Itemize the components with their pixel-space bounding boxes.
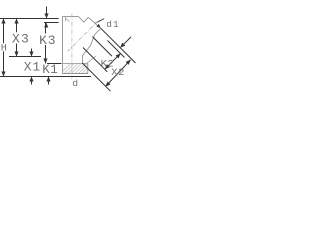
dimension line X2 <box>106 60 131 87</box>
svg-text:X3: X3 <box>12 31 30 46</box>
svg-text:K3: K3 <box>39 33 56 48</box>
main pipe centerline <box>71 14 73 79</box>
extension line C1 through branch root <box>83 48 107 72</box>
reference line L3 (X1/X3 plane) <box>9 56 41 58</box>
dimension line H <box>3 19 5 77</box>
svg-text:X2: X2 <box>111 67 125 79</box>
V notch between socket and branch <box>79 17 89 23</box>
dimension line X1 stubs <box>31 49 33 85</box>
dimension line K1 stub <box>48 77 50 85</box>
arrow X3 bottom <box>14 52 18 57</box>
section hatch of bottom block <box>58 62 104 76</box>
reference line L5 (bottom plane) <box>0 76 91 78</box>
pointer stub above L1 <box>46 7 48 15</box>
arrow H bottom <box>1 72 5 77</box>
branch root inner line <box>85 56 96 65</box>
arrow X2 outer <box>126 60 131 65</box>
extension line C2 through body edge <box>82 63 110 91</box>
extension of branch mouth plane <box>101 28 136 63</box>
extension of branch socket-end plane <box>92 37 112 57</box>
bottom block top edge <box>63 63 88 65</box>
arrow X3 top <box>14 19 18 24</box>
arrow d1 lower <box>96 24 100 28</box>
arrow X1 top <box>29 52 33 57</box>
pointer stub beyond mouth plane <box>124 37 131 44</box>
extension of branch K-plane <box>108 41 125 58</box>
socket inner bore edge <box>64 17 66 22</box>
reference line L2 (top K-plane) <box>44 22 59 24</box>
arrow pointer at mouth plane <box>120 43 125 48</box>
bottom block right edge <box>87 64 89 74</box>
fitting socket top edge <box>63 16 79 18</box>
arrow K2 inner <box>105 64 110 69</box>
arrow K3 top <box>44 23 48 28</box>
fitting body left edge <box>62 17 64 74</box>
arrow K2 outer <box>116 53 121 58</box>
socket inner chamfer <box>66 18 70 21</box>
branch lower wall <box>83 28 101 63</box>
svg-text:H: H <box>1 43 7 54</box>
arrow K1 bottom <box>46 77 50 82</box>
dimension line X3 <box>16 19 18 57</box>
svg-text:d: d <box>72 78 78 89</box>
arrow pointer down at L1 <box>44 14 48 19</box>
dimension line K2 <box>105 53 121 69</box>
dimension line K3 <box>45 23 47 64</box>
arrow X1 bottom <box>29 77 33 82</box>
reference line L4 (K1/K3 plane) <box>47 63 62 65</box>
branch centerline <box>68 21 99 52</box>
arrow K3 bottom <box>43 59 47 64</box>
arrow X2 inner <box>106 81 111 86</box>
reference line L1 (top X-plane) <box>0 18 59 20</box>
arrow H top <box>1 19 5 24</box>
svg-text:K1: K1 <box>42 63 58 77</box>
d1 leader line <box>95 19 104 24</box>
bottom block bottom edge <box>63 73 88 75</box>
svg-text:X1: X1 <box>24 59 41 74</box>
svg-text:d1: d1 <box>106 19 119 30</box>
branch mouth edge <box>88 17 101 28</box>
